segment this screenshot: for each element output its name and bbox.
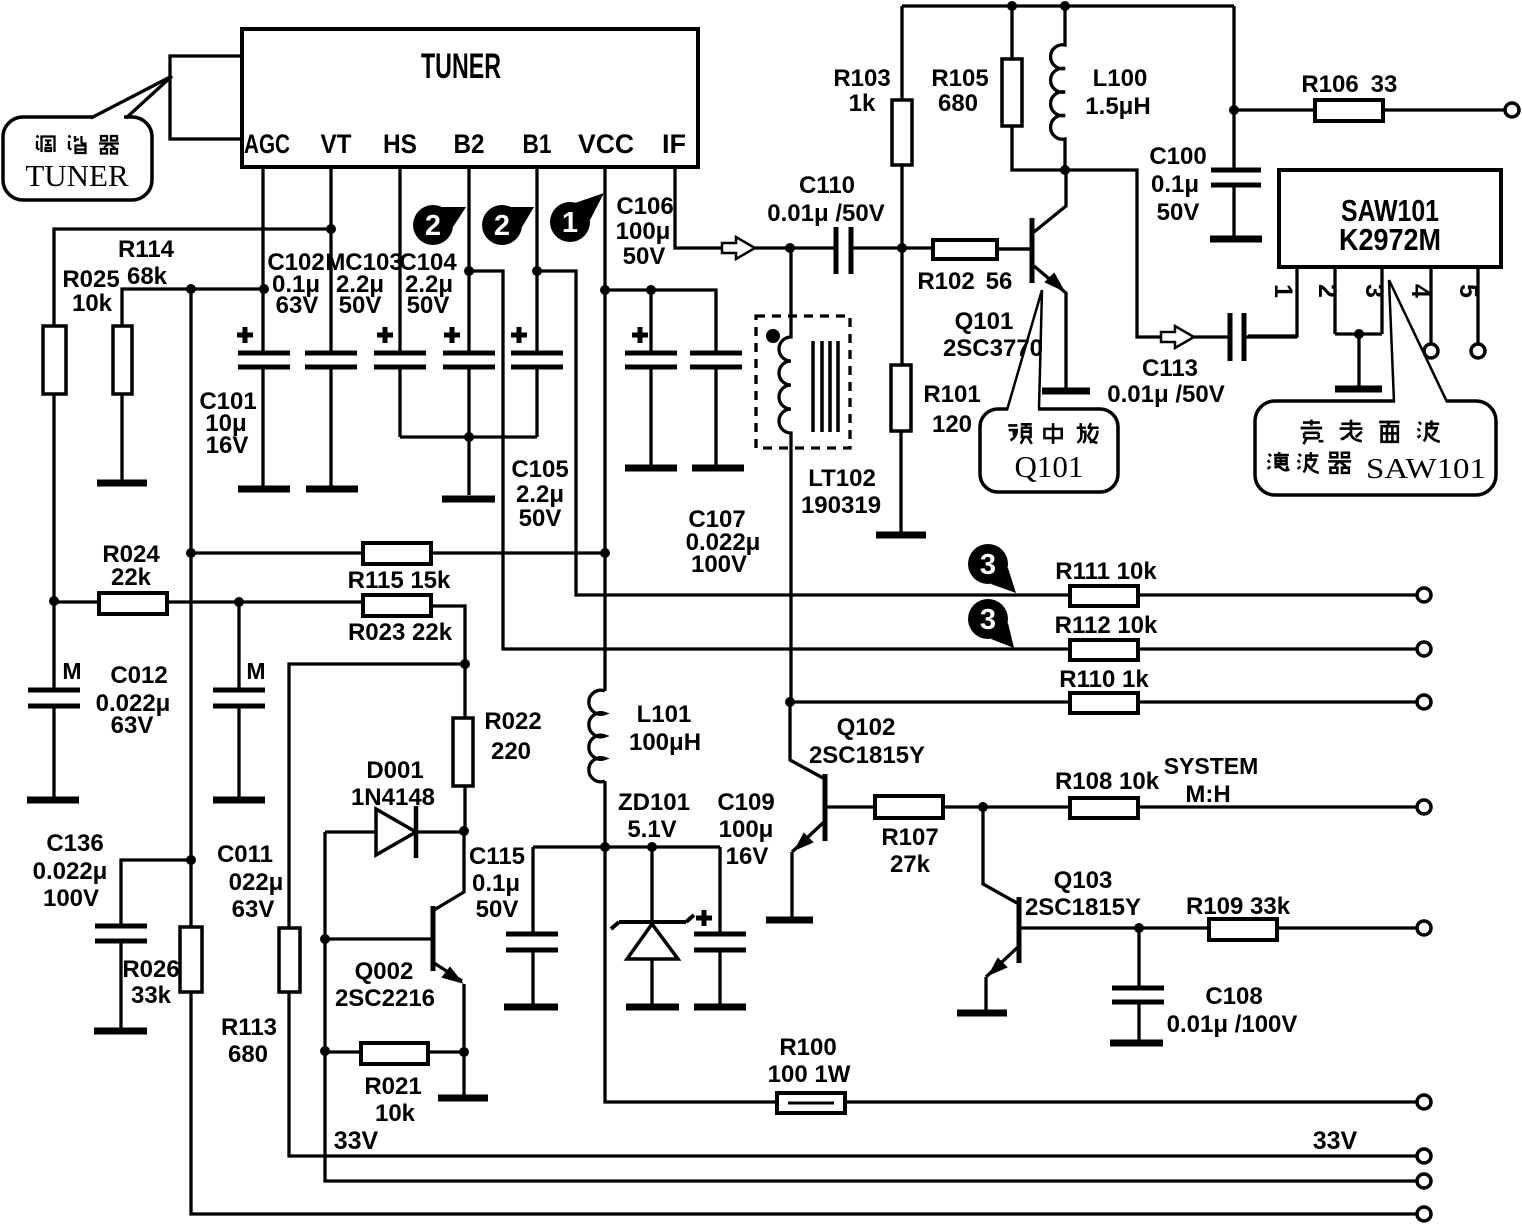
svg-text:0.022μ: 0.022μ (33, 858, 108, 885)
svg-text:R112 10k: R112 10k (1055, 612, 1158, 639)
node dot R105 top (1007, 1, 1017, 11)
svg-text:10k: 10k (72, 290, 113, 317)
ground R114 (97, 480, 147, 487)
terminal R106 (1505, 103, 1519, 117)
svg-text:10k: 10k (375, 1100, 416, 1127)
svg-text:TUNER: TUNER (25, 158, 129, 193)
terminal R108 (1417, 800, 1431, 814)
terminal R100 (1417, 1095, 1431, 1109)
ground C109 (694, 1004, 746, 1011)
svg-text:Q102: Q102 (837, 714, 896, 741)
resistor R100 (768, 1034, 851, 1113)
capacitor C101 (199, 327, 290, 459)
ground C011 (213, 797, 265, 804)
svg-text:SAW101: SAW101 (1366, 453, 1486, 485)
svg-text:56: 56 (986, 268, 1013, 295)
svg-text:16V: 16V (726, 843, 769, 870)
svg-text:R110 1k: R110 1k (1059, 666, 1149, 693)
svg-text:R114: R114 (118, 236, 175, 263)
svg-text:R107: R107 (881, 824, 938, 851)
node dot C136 branch (186, 855, 196, 865)
svg-text:R105: R105 (931, 65, 988, 92)
wire left bus x191 (191, 289, 1424, 1214)
svg-text:1: 1 (1269, 284, 1297, 298)
callout text 声表面波 (1301, 420, 1440, 445)
terminal R111 (1417, 588, 1431, 602)
terminal R109 (1417, 921, 1431, 935)
svg-text:33V: 33V (1313, 1127, 1358, 1155)
svg-text:R103: R103 (833, 65, 890, 92)
node dot B2 branch (464, 266, 474, 276)
svg-text:M: M (246, 658, 265, 684)
callout SAW pointer (1389, 280, 1447, 402)
wire R110 line (790, 700, 1424, 703)
node dot ZD101 top (647, 842, 657, 852)
svg-text:M: M (62, 658, 81, 684)
node dot R115 right VCC (600, 548, 610, 558)
svg-text:100V: 100V (43, 885, 99, 912)
ground C102 (306, 486, 358, 493)
svg-text:C100: C100 (1149, 143, 1206, 170)
wire B2 branch to R112 line (469, 271, 1070, 649)
wire R025 top to VT (54, 229, 331, 326)
node dot VCC y290 (600, 285, 610, 295)
wire zener row y847 (533, 845, 720, 848)
svg-text:AGC: AGC (244, 129, 290, 159)
diode D001 (325, 757, 464, 858)
svg-text:50V: 50V (1157, 199, 1200, 226)
capacitor C113 (1107, 313, 1297, 408)
resistor R021 (325, 1043, 464, 1127)
transistor Q103 (983, 807, 1141, 1010)
svg-text:22k: 22k (111, 564, 152, 591)
svg-text:190319: 190319 (801, 492, 881, 519)
wire C011 to ground (237, 602, 240, 797)
svg-text:D001: D001 (366, 757, 423, 784)
terminal R110 (1417, 695, 1431, 709)
wire R025 down (52, 394, 55, 797)
svg-text:R102: R102 (917, 268, 974, 295)
badge 3 (R111) (968, 544, 1016, 593)
wire x325 D001 anode branch down (325, 832, 1424, 1181)
TUNER block U-TUNER (242, 29, 698, 167)
node dot R021 right (459, 1047, 469, 1057)
svg-text:33k: 33k (131, 982, 172, 1009)
wire B1 branch to R111 line (537, 271, 1070, 595)
svg-text:16V: 16V (206, 432, 249, 459)
callout Q101 pointer (1007, 290, 1042, 410)
svg-text:680: 680 (228, 1041, 268, 1068)
svg-text:0.01μ /50V: 0.01μ /50V (767, 200, 884, 227)
svg-text:100μ: 100μ (616, 218, 671, 245)
ground Q103 emitter (957, 1010, 1007, 1017)
capacitor C102 (267, 249, 357, 367)
svg-text:3: 3 (980, 549, 996, 581)
svg-text:2: 2 (425, 210, 441, 242)
ground C101 (238, 486, 290, 493)
wire Q002 emitter ground (462, 1052, 465, 1095)
resistor R107 (875, 796, 1070, 878)
svg-text:C012: C012 (110, 662, 167, 689)
capacitor C105 (511, 327, 569, 532)
terminal bus3 (1417, 1207, 1431, 1221)
svg-text:680: 680 (938, 90, 978, 117)
wire R100 line (605, 847, 1424, 1102)
inductor L100 (1051, 6, 1151, 170)
ground C106 (625, 465, 677, 472)
svg-text:120: 120 (932, 411, 972, 438)
resistor R022 (453, 708, 542, 786)
badge 3 (R112) (968, 599, 1014, 648)
svg-text:TUNER: TUNER (421, 47, 501, 86)
wire caps C103-C105 common to ground (400, 437, 537, 495)
wire collector node to C113 (1065, 170, 1230, 337)
node dot IF-LT102 (785, 243, 795, 253)
wire R114 to ground (120, 394, 123, 480)
svg-text:3: 3 (980, 604, 996, 636)
node dot R024 left (49, 596, 59, 606)
svg-text:C113: C113 (1142, 355, 1198, 382)
resistor R113 (221, 928, 300, 1068)
node dot B1 branch (532, 266, 542, 276)
node dot C108 top (1134, 923, 1144, 933)
resistor R023 (348, 595, 453, 646)
wire VCC pin down to L101 (603, 167, 606, 691)
resistor R105 (931, 6, 1065, 170)
badge 1 (VCC) (550, 193, 604, 242)
svg-text:LT102: LT102 (808, 465, 876, 492)
node dot x465 y664 (460, 659, 470, 669)
svg-text:VCC: VCC (578, 129, 634, 159)
pin 2 SAW101 (1313, 267, 1341, 334)
resistor R109 (1139, 893, 1424, 940)
resistor R101 (891, 365, 981, 532)
svg-text:R100: R100 (779, 1034, 836, 1061)
capacitor C100 (1149, 6, 1261, 236)
ground ZD101 (626, 1004, 679, 1011)
ground Q102 emitter (766, 917, 813, 924)
svg-text:R023 22k: R023 22k (348, 619, 453, 646)
node dot pin2-3 (1354, 329, 1364, 339)
ground C108 (1110, 1040, 1163, 1047)
ground R101 (876, 532, 926, 539)
svg-text:C105: C105 (511, 456, 568, 483)
svg-text:1.5μH: 1.5μH (1085, 93, 1150, 120)
svg-text:C106: C106 (616, 193, 673, 220)
node dot VT-R025 (326, 224, 336, 234)
ground SAW101 (1335, 386, 1382, 393)
svg-text:Q101: Q101 (955, 308, 1014, 335)
svg-text:R108 10k: R108 10k (1055, 768, 1160, 795)
resistor R025 (43, 266, 120, 394)
wire R024 line y602 (54, 600, 363, 603)
svg-text:R025: R025 (62, 266, 119, 293)
svg-text:33V: 33V (334, 1127, 379, 1155)
svg-text:R101: R101 (923, 381, 980, 408)
terminal bus2 (1417, 1174, 1431, 1188)
capacitor C115 (469, 843, 558, 1004)
ground Q002 (438, 1095, 488, 1102)
svg-text:IF: IF (662, 129, 686, 159)
callout text 调谐器 (37, 136, 120, 154)
IC SAW101 (1279, 170, 1501, 267)
node dot R115 left (186, 548, 196, 558)
resistor R114 (113, 236, 175, 394)
svg-text:50V: 50V (519, 505, 562, 532)
capacitor C103 (325, 249, 426, 367)
svg-text:0.01μ /50V: 0.01μ /50V (1107, 381, 1224, 408)
svg-text:C011: C011 (217, 841, 273, 868)
ground C012 (27, 797, 79, 804)
resistor R102 (917, 240, 1030, 295)
top bus wire (902, 4, 1234, 7)
svg-text:2: 2 (1313, 284, 1341, 298)
node dot R021 left (320, 1046, 330, 1056)
transistor Q002 (325, 831, 464, 1052)
svg-text:R115 15k: R115 15k (348, 567, 451, 594)
svg-text:SYSTEM: SYSTEM (1164, 753, 1259, 779)
inductor L101 (589, 690, 701, 847)
svg-text:B1: B1 (523, 129, 552, 159)
svg-text:50V: 50V (339, 292, 382, 319)
svg-text:1: 1 (562, 207, 578, 239)
capacitor C109 (694, 789, 775, 1004)
ground C115 (504, 1004, 558, 1011)
svg-text:022μ: 022μ (229, 869, 284, 896)
svg-text:1k: 1k (849, 90, 876, 117)
pin 1 SAW101 (1248, 267, 1297, 336)
svg-text:R109 33k: R109 33k (1186, 893, 1291, 920)
wire R115 line y553 (191, 551, 605, 554)
capacitor C107 (686, 353, 761, 578)
wire B2 pin down (467, 167, 470, 437)
wire R114 top to AGC (122, 289, 264, 326)
resistor R103 (833, 6, 912, 365)
antenna input box (170, 56, 242, 139)
node dot AGC y289 (259, 284, 269, 294)
terminal R112 (1417, 642, 1431, 656)
signal arrow C113 (1161, 326, 1194, 348)
capacitor C011 (213, 658, 283, 923)
zener diode ZD101 (611, 789, 694, 1004)
callout text 滤波器SAW101 (1268, 452, 1352, 473)
svg-text:220: 220 (491, 738, 531, 765)
transistor Q102 (790, 702, 925, 917)
svg-text:R026: R026 (122, 956, 179, 983)
svg-text:VT: VT (321, 129, 352, 159)
resistor R108 (1055, 768, 1424, 818)
svg-text:C115: C115 (469, 843, 525, 870)
svg-text:C109: C109 (717, 789, 774, 816)
wire AGC pin down (261, 167, 264, 489)
svg-text:2: 2 (494, 210, 510, 242)
callout SAW box (1255, 397, 1496, 495)
svg-text:R106: R106 (1301, 71, 1358, 98)
wire IF pin to C110 (675, 167, 836, 248)
wire R022 to Q002 (463, 786, 466, 831)
resistor R024 (99, 541, 167, 614)
wire HS pin down (398, 167, 401, 437)
svg-text:63V: 63V (111, 712, 154, 739)
ground C136 (94, 1028, 147, 1035)
svg-text:100 1W: 100 1W (768, 1061, 851, 1088)
svg-text:5: 5 (1454, 284, 1482, 298)
svg-text:63V: 63V (232, 896, 275, 923)
svg-text:50V: 50V (407, 292, 450, 319)
node dot L100 bottom (1060, 165, 1070, 175)
node dot cap bus (464, 432, 474, 442)
transformer LT102 core bars (813, 341, 838, 432)
capacitor C106 (616, 193, 677, 465)
svg-text:Q103: Q103 (1054, 867, 1113, 894)
callout text 预中放 (1008, 423, 1098, 444)
svg-text:0.1μ: 0.1μ (472, 870, 520, 897)
svg-text:2SC2216: 2SC2216 (335, 985, 435, 1012)
ground Q101 emitter (1042, 388, 1090, 395)
svg-text:63V: 63V (276, 292, 319, 319)
svg-text:100μH: 100μH (629, 729, 701, 756)
resistor R112 (1055, 612, 1424, 660)
svg-text:2SC1815Y: 2SC1815Y (809, 742, 925, 769)
pin 4 SAW101 (1406, 267, 1438, 358)
svg-text:5.1V: 5.1V (627, 816, 676, 843)
svg-text:33: 33 (1371, 71, 1398, 98)
node dot R110 left (785, 697, 795, 707)
capacitor C012 (28, 658, 170, 739)
wire VCC to C106 C107 (605, 290, 716, 351)
svg-text:M:H: M:H (1185, 781, 1230, 808)
transformer LT102 primary coil (779, 248, 791, 701)
capacitor C110 (767, 172, 933, 274)
svg-text:68k: 68k (127, 263, 168, 290)
resistor R110 (1059, 666, 1149, 713)
node dot Q002 base (320, 934, 330, 944)
callout TUNER box (3, 113, 152, 200)
svg-text:0.01μ /100V: 0.01μ /100V (1167, 1011, 1298, 1038)
node dot C100 R106 (1229, 105, 1239, 115)
svg-text:100V: 100V (691, 551, 747, 578)
svg-text:L101: L101 (637, 701, 692, 728)
svg-text:100μ: 100μ (719, 816, 774, 843)
resistor R026 (122, 927, 202, 1009)
svg-text:HS: HS (383, 129, 417, 159)
resistor R106 (1234, 71, 1505, 121)
capacitor C108 (1112, 928, 1297, 1040)
svg-text:B2: B2 (454, 129, 485, 159)
svg-text:50V: 50V (623, 243, 666, 270)
svg-text:27k: 27k (890, 851, 931, 878)
wire B1 pin down (535, 167, 538, 437)
svg-text:50V: 50V (476, 896, 519, 923)
node dot D001 cathode R022 (459, 826, 469, 836)
wire C136 branch (121, 860, 191, 1028)
wire branch to R113 (289, 664, 465, 928)
wire VT pin down (329, 167, 332, 489)
svg-text:Q002: Q002 (355, 958, 414, 985)
svg-text:2.2μ: 2.2μ (516, 481, 564, 508)
svg-text:C108: C108 (1205, 983, 1262, 1010)
ground C100 (1210, 236, 1262, 243)
capacitor C104 (399, 249, 495, 367)
svg-text:R111 10k: R111 10k (1055, 558, 1157, 585)
pin 5 SAW101 (1454, 267, 1485, 358)
wire R023 right corner down (431, 606, 465, 718)
ground C107 (692, 465, 744, 472)
node dot C106 top (646, 285, 656, 295)
svg-text:C110: C110 (799, 172, 855, 199)
pin 3 SAW101 (1335, 267, 1388, 386)
node dot L100 top (1060, 1, 1070, 11)
svg-text:R022: R022 (484, 708, 541, 735)
svg-text:R021: R021 (364, 1073, 421, 1100)
svg-text:R113: R113 (221, 1014, 277, 1041)
resistor R115 (348, 543, 451, 594)
svg-text:K2972M: K2972M (1339, 222, 1441, 257)
ground cap bus (442, 496, 495, 503)
svg-text:C136: C136 (46, 830, 103, 857)
callout Q101 box (980, 405, 1118, 492)
svg-text:2SC1815Y: 2SC1815Y (1025, 894, 1141, 921)
svg-text:4: 4 (1406, 284, 1434, 298)
svg-text:ZD101: ZD101 (618, 789, 690, 816)
transformer LT102 dashed box (756, 316, 881, 519)
svg-text:1N4148: 1N4148 (351, 784, 435, 811)
svg-text:0.1μ: 0.1μ (1151, 171, 1199, 198)
transistor Q101 (943, 170, 1066, 388)
node dot bus-left y289 (186, 284, 196, 294)
svg-text:3: 3 (1360, 284, 1388, 298)
node dot R107 right (978, 802, 988, 812)
badge 2 (B1) (482, 205, 534, 245)
node dot C011 top (234, 597, 244, 607)
resistor R111 (1055, 558, 1424, 606)
svg-text:Q101: Q101 (1015, 449, 1084, 484)
terminal 33V bus (1417, 1149, 1431, 1163)
node dot L101 bottom (600, 842, 610, 852)
signal arrow IF (722, 237, 755, 259)
node dot R103 bottom junction (897, 243, 907, 253)
wire R113 down to 33V bus (289, 992, 1424, 1156)
capacitor C136 (33, 830, 147, 941)
callout TUNER pointer (91, 76, 172, 118)
svg-text:L100: L100 (1093, 65, 1148, 92)
badge 2 (B2) (413, 205, 466, 245)
